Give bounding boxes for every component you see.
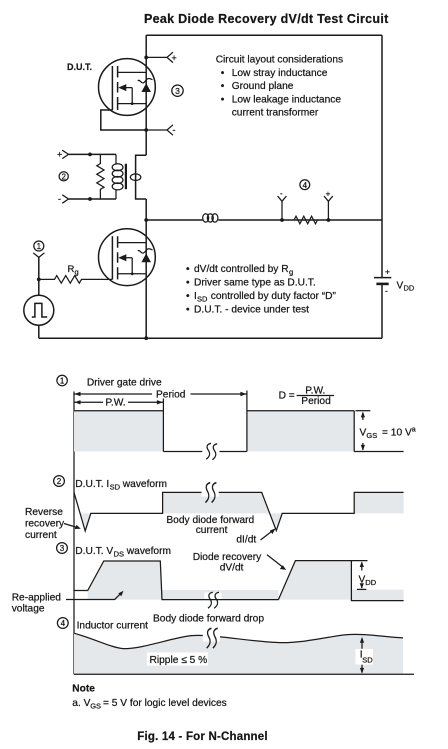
resistor (current sense) [294,216,317,224]
wire: waveform axis vertical [73,392,75,675]
resistor Rg [39,276,113,284]
waveform 4 trace [74,633,403,648]
svg-text:DD: DD [365,578,376,587]
transformer T1 primary [112,154,123,199]
svg-text:•: • [186,278,190,289]
svg-text:dV/dt: dV/dt [220,563,244,574]
svg-text:SD: SD [110,483,121,492]
wire: left edge upper (through DUT) [145,35,147,155]
node 3 marker [172,85,183,96]
node: input - arrow [58,194,69,204]
svg-text:recovery: recovery [25,518,65,529]
label: dI/dt [236,528,275,545]
transformer T1 secondary [130,155,146,199]
wire: main box right edge upper [381,35,383,277]
wire: input bottom rail [69,198,117,200]
wire: inductor to box right [218,219,382,221]
svg-text:2: 2 [57,477,62,486]
waveform 3 gray pulse 2 [278,561,351,600]
node 1 marker [34,241,44,251]
svg-text:SD: SD [197,295,208,304]
svg-text:•: • [186,264,190,275]
svg-text:•: • [221,81,225,92]
svg-text:Fig. 14 - For N-Channel: Fig. 14 - For N-Channel [137,731,267,743]
svg-text:current transformer: current transformer [232,108,319,119]
svg-text:D.U.T.: D.U.T. [67,62,92,72]
waveform 1 gray pulse 2 [247,411,354,452]
wire: main box right edge lower [381,284,383,338]
dimension: ISD [356,637,374,674]
svg-text:Ground plane: Ground plane [232,81,294,92]
svg-text:+: + [57,150,62,160]
svg-text:Ripple ≤ 5 %: Ripple ≤ 5 % [150,655,208,666]
svg-text:dI/dt: dI/dt [236,534,256,545]
svg-text:a: a [412,426,416,433]
transistor DUT (MOSFET with body diode) [99,59,156,116]
node 2 label [54,476,167,492]
waveform 2 trace [74,492,404,531]
label: dv/dt notes list [186,264,337,316]
svg-text:Body diode forward drop: Body diode forward drop [153,614,264,625]
wire: waveform bottom axis [74,673,414,675]
break mark wf2 [202,483,219,503]
svg-text:Driver gate drive: Driver gate drive [87,378,162,389]
dimension: VGS [356,411,416,451]
dimension: P.W. [74,398,163,409]
svg-text:Reverse: Reverse [25,507,63,518]
break mark wf4 [203,628,220,648]
svg-text:-: - [173,125,176,135]
node: gate drive input arrow [33,253,44,258]
svg-text:DD: DD [404,284,415,293]
svg-text:2: 2 [61,172,66,181]
wire: left edge lower (through driver) [145,199,147,338]
wire: input top rail [69,153,117,155]
node: input + arrow [57,150,69,160]
svg-text:D.U.T. V: D.U.T. V [75,546,113,557]
svg-text:+: + [326,190,331,199]
svg-text:Diode recovery: Diode recovery [193,552,262,563]
svg-text:•: • [221,94,225,105]
label: re-applied voltage + arrow [12,591,124,615]
svg-text:Circuit layout considerations: Circuit layout considerations [216,55,343,66]
node: driver drain junction [144,218,148,222]
break mark wf3 [204,592,221,608]
svg-text:a. V: a. V [72,698,90,709]
node: box bottom-left junction [144,336,148,340]
node 4 label [57,618,148,632]
svg-text:4: 4 [61,619,66,628]
svg-text:-: - [385,286,388,296]
svg-text:= 10 V: = 10 V [382,427,412,438]
svg-text:controlled by duty factor “D”: controlled by duty factor “D” [211,291,337,302]
transistor Q1 driver (MOSFET with body diode) [99,229,156,286]
label: body diode forward current [166,515,254,536]
waveform 1 gray pulse 1 [74,411,163,452]
svg-text:DS: DS [114,550,124,559]
svg-text:1: 1 [37,242,42,251]
wire: main box top [146,34,382,36]
waveform 3 gray band mid [162,590,278,600]
node 4 marker [300,180,310,190]
waveform 1 trace [74,391,404,452]
svg-text:P.W.: P.W. [105,398,125,409]
svg-text:= 5 V for logic level devices: = 5 V for logic level devices [103,698,227,709]
svg-text:D.U.T. I: D.U.T. I [75,479,109,490]
dimension: Period [74,389,247,400]
svg-text:D.U.T. - device under test: D.U.T. - device under test [194,305,309,316]
svg-text:Period: Period [156,389,186,400]
svg-text:D =: D = [279,390,295,401]
svg-text:current: current [196,525,228,536]
svg-text:SD: SD [362,655,373,664]
node: probe - [278,189,287,222]
dimension: VDD [351,561,376,590]
label: circuit layout considerations [216,55,343,119]
node: source sense stub - [144,125,175,135]
svg-text:GS: GS [90,701,101,710]
svg-text:Low stray inductance: Low stray inductance [232,68,328,79]
svg-text:g: g [289,268,293,277]
svg-text:1: 1 [60,377,65,386]
waveform 3 gray pulse 1 [88,561,162,600]
svg-text:Inductor current: Inductor current [77,621,149,632]
waveform 3 trace [74,561,404,601]
svg-text:Driver same type as D.U.T.: Driver same type as D.U.T. [194,278,316,289]
svg-text:+: + [385,267,390,277]
wire: gate drive vertical [38,257,40,295]
svg-text:V: V [397,281,404,292]
waveform 2 gray: band 2 [354,492,403,513]
break mark wf1 [202,443,219,459]
svg-text:4: 4 [303,181,308,190]
svg-text:3: 3 [60,544,65,553]
svg-text:3: 3 [175,86,180,96]
svg-text:•: • [186,305,190,316]
wire: DUT gate-source loop [101,110,146,130]
label: ripple [147,653,208,666]
inductor L1 [203,214,218,222]
svg-text:•: • [186,291,190,302]
label Rg [68,264,79,277]
svg-text:waveform: waveform [122,479,167,490]
svg-text:current: current [25,530,57,541]
svg-text:+: + [172,53,177,63]
svg-text:-: - [58,194,61,204]
waveform 2 gray: body diode band 1 [163,492,283,530]
waveform 2 gray: reverse recovery spike 1 [80,513,91,531]
waveform 4 gray [74,633,403,674]
wire: bottom rail [39,337,382,339]
wire: output to inductor [146,219,203,221]
label: diode recovery dV/dt + arrow [193,552,287,574]
node 3 label [57,543,171,559]
node: probe + [324,190,333,222]
svg-text:Period: Period [301,396,331,407]
svg-text:•: • [221,68,225,79]
node 1 label [57,375,162,388]
transformer T1 core [125,164,127,189]
battery VDD [374,267,415,296]
svg-text:Peak Diode Recovery dV/dt Test: Peak Diode Recovery dV/dt Test Circuit [144,12,389,26]
svg-text:GS: GS [366,431,377,440]
svg-text:-: - [280,189,283,198]
dimension: D = P.W./Period [279,386,335,407]
svg-text:dV/dt controlled by R: dV/dt controlled by R [194,264,289,275]
node: drain sense stub + [144,52,176,63]
svg-text:R: R [68,264,75,275]
waveform 3 gray band right [351,590,403,601]
svg-text:waveform: waveform [126,546,171,557]
svg-text:Re-applied: Re-applied [12,593,62,604]
resistor (transformer damping) [97,154,104,199]
svg-text:Low leakage inductance: Low leakage inductance [232,94,342,105]
svg-text:Note: Note [72,684,95,695]
source: pulse generator [24,295,54,338]
svg-text:voltage: voltage [12,604,45,615]
node 2 marker [59,172,68,182]
note [72,684,226,711]
label: reverse recovery current [25,507,81,541]
